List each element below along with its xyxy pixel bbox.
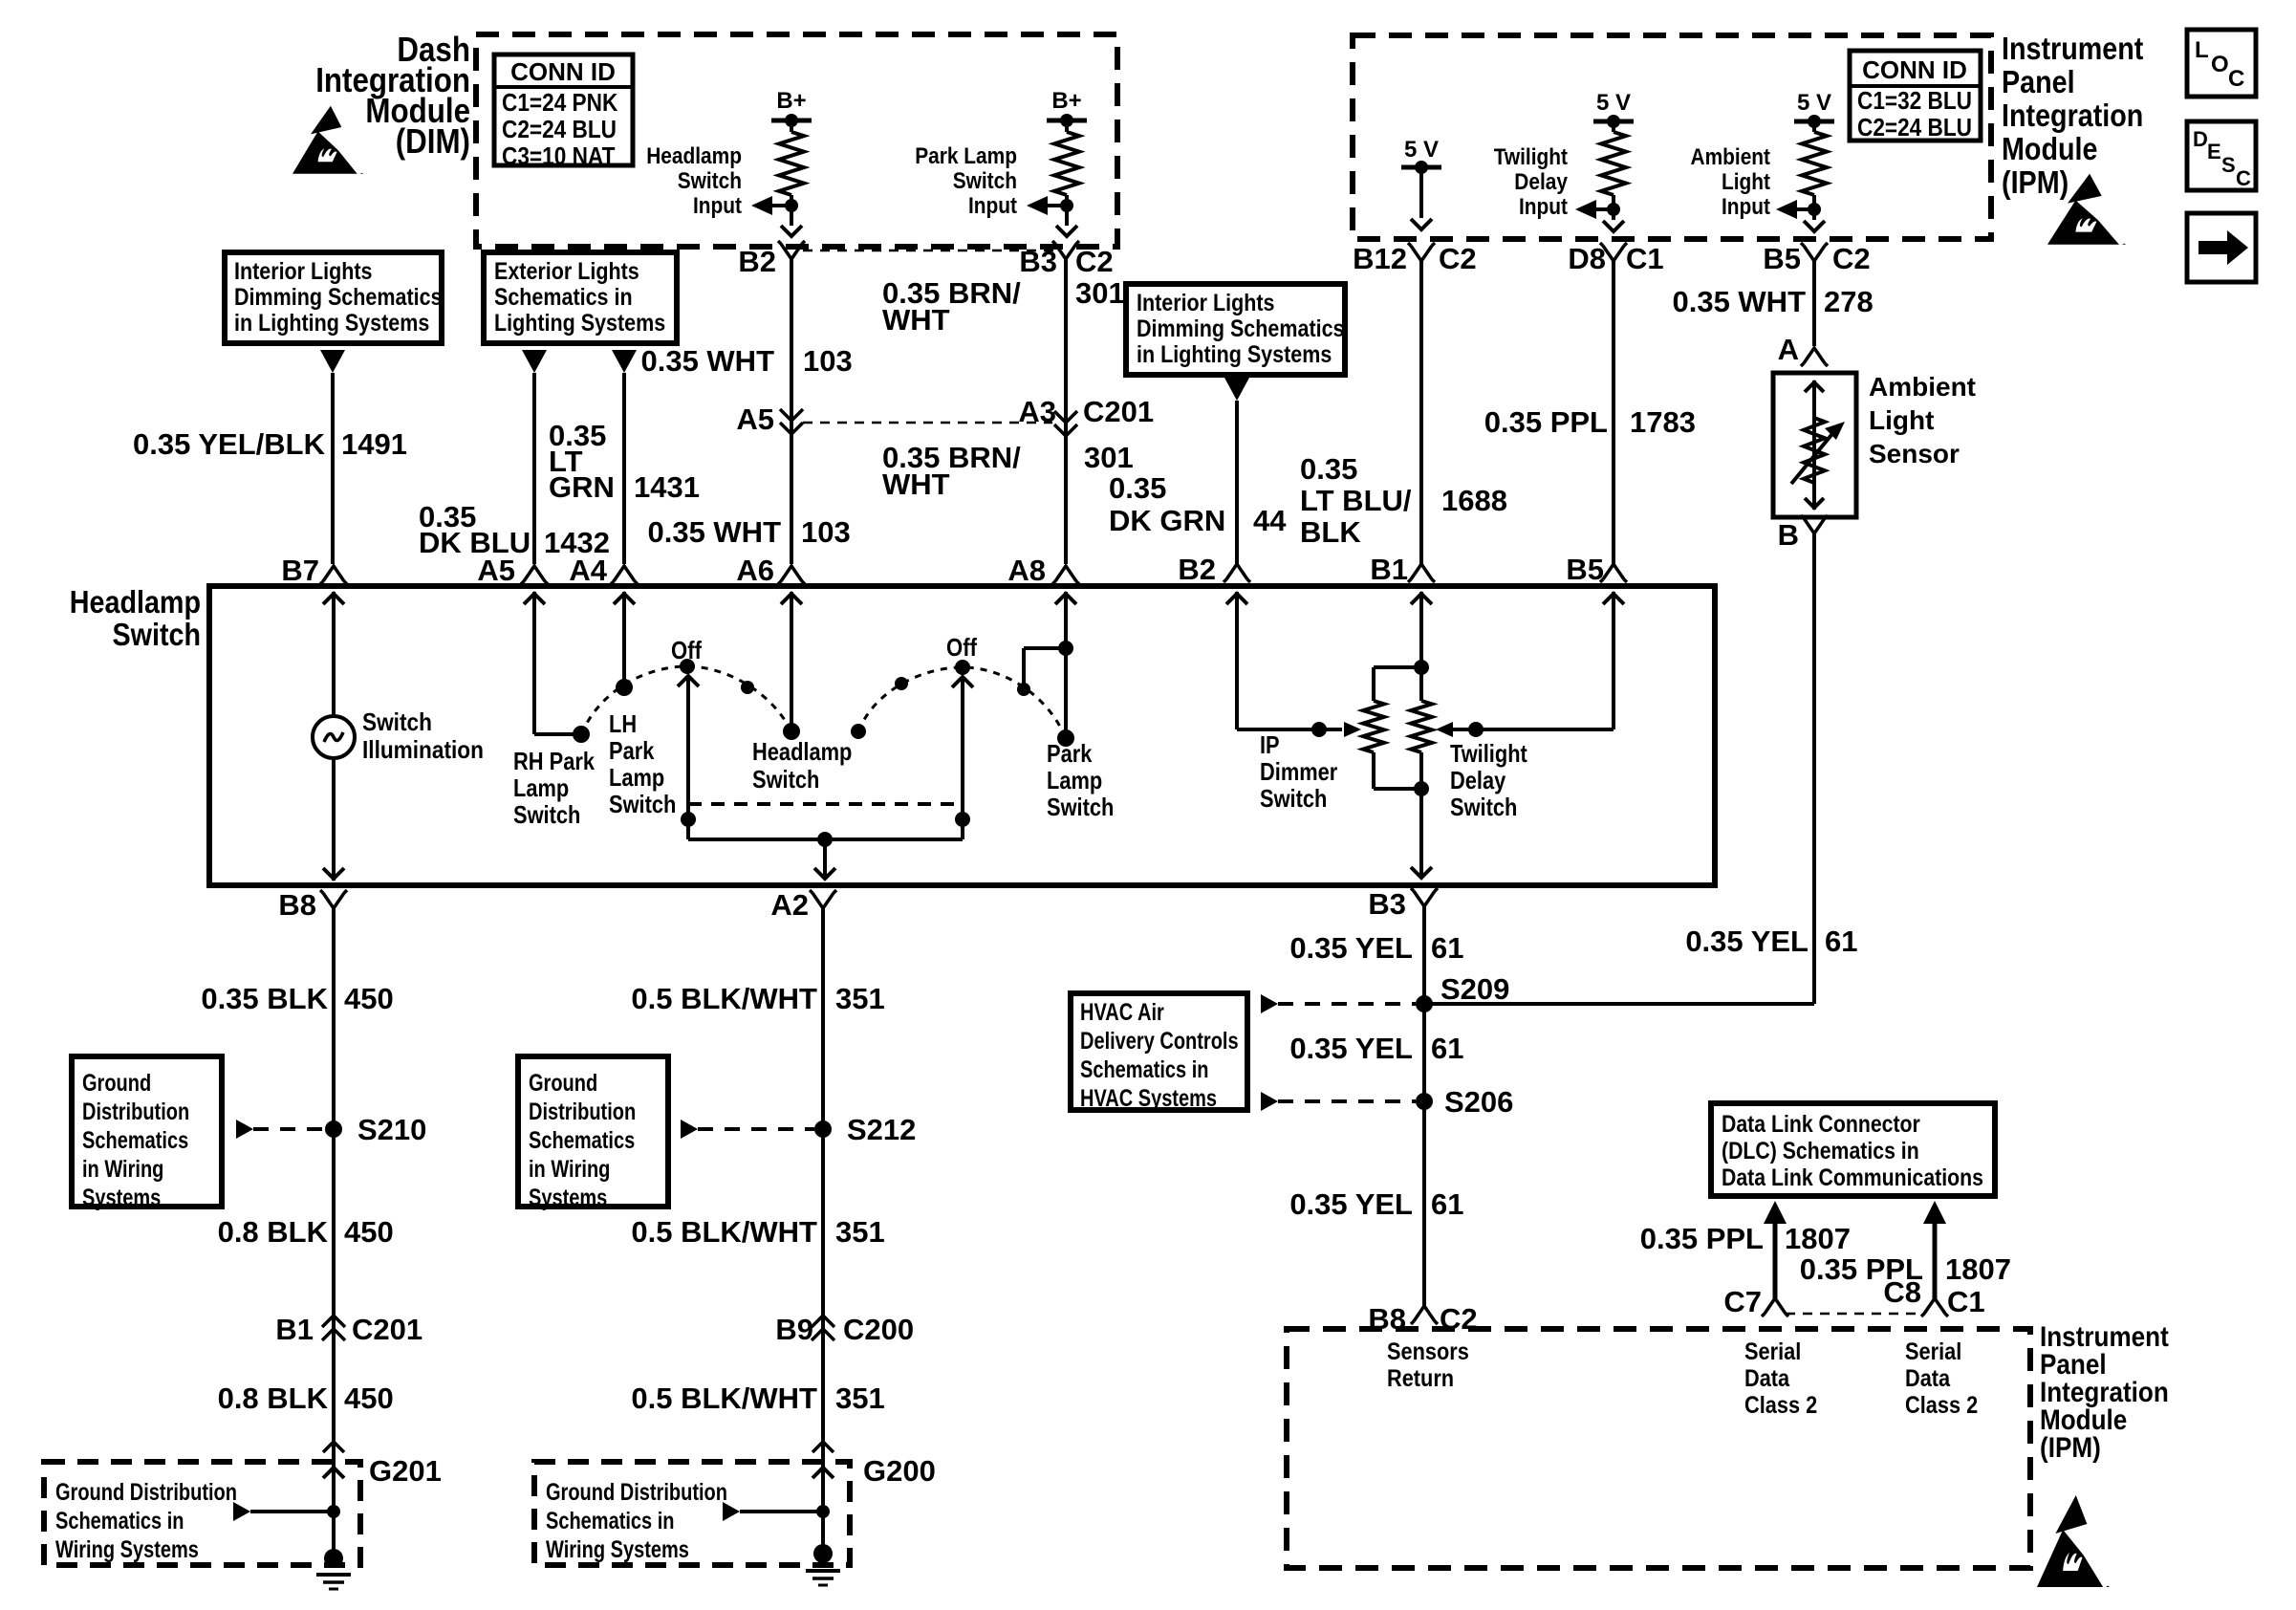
svg-text:C: C <box>2236 166 2251 190</box>
svg-text:C1=32 BLU: C1=32 BLU <box>1857 86 1972 115</box>
svg-text:Switch: Switch <box>1450 793 1517 821</box>
splice S210 with dashed reference arrow <box>236 1120 253 1139</box>
pin D8 / C1 of IPM (connector fork) <box>1600 243 1627 261</box>
ground symbol G201 <box>324 1549 343 1568</box>
svg-text:Interior Lights: Interior Lights <box>234 258 373 285</box>
svg-text:1807: 1807 <box>1785 1222 1851 1255</box>
svg-text:0.35 YEL: 0.35 YEL <box>1289 1032 1413 1065</box>
arrow wire from interior-lights callout to headlamp switch B2 <box>1224 378 1249 401</box>
svg-text:Light: Light <box>1869 405 1934 435</box>
svg-text:Interior Lights: Interior Lights <box>1137 290 1275 316</box>
svg-text:0.35 YEL: 0.35 YEL <box>1685 925 1809 958</box>
connector into G201 (half fork) <box>323 1442 344 1452</box>
svg-text:Integration: Integration <box>2002 98 2143 133</box>
ground lead G201 <box>323 1468 344 1478</box>
wire: B12 to B1 (0.35 LT BLU/BLK 1688) <box>1419 261 1423 564</box>
arrow wire from exterior-lights callout to A4 <box>612 350 637 373</box>
ground lead G200 <box>812 1468 834 1478</box>
ground symbol G200 <box>813 1544 833 1563</box>
svg-text:Switch: Switch <box>953 168 1017 194</box>
connector dashed tie line (C7-C1) <box>1786 1313 1925 1316</box>
svg-text:Park: Park <box>1047 739 1093 768</box>
svg-text:C8: C8 <box>1883 1275 1921 1309</box>
power feed B+ (headlamp switch input) <box>771 119 812 123</box>
svg-text:B2: B2 <box>1178 553 1216 586</box>
svg-text:Schematics in: Schematics in <box>494 284 633 311</box>
svg-text:0.35 WHT: 0.35 WHT <box>647 515 781 549</box>
svg-text:103: 103 <box>803 344 853 378</box>
svg-text:C200: C200 <box>843 1313 914 1346</box>
svg-text:Delay: Delay <box>1450 766 1506 794</box>
resistor: headlamp switch input pull-up <box>790 120 793 132</box>
svg-text:Lamp: Lamp <box>609 763 664 792</box>
svg-text:C3=10 NAT: C3=10 NAT <box>502 141 615 170</box>
callout box: Ground Distribution Schematics in Wiring Systems (mid) <box>518 1056 668 1207</box>
svg-text:Switch: Switch <box>678 168 742 194</box>
svg-text:5 V: 5 V <box>1797 90 1831 116</box>
svg-text:C2: C2 <box>1075 245 1114 278</box>
svg-text:Lighting Systems: Lighting Systems <box>494 310 665 337</box>
svg-text:Headlamp: Headlamp <box>646 143 742 169</box>
ground box: G201 dashed outline <box>44 1462 360 1565</box>
svg-text:0.35 YEL: 0.35 YEL <box>1289 1187 1413 1221</box>
wire: B2 to A6 (0.35 WHT 103) <box>790 259 793 564</box>
pin B12 / C2 of IPM (connector fork) <box>1408 243 1435 261</box>
svg-text:1783: 1783 <box>1630 405 1696 439</box>
svg-text:C1: C1 <box>1626 242 1664 275</box>
svg-text:HVAC Systems: HVAC Systems <box>1080 1085 1217 1112</box>
svg-text:CONN ID: CONN ID <box>510 57 616 86</box>
rotary contact arc (headlamp side) <box>858 667 1066 738</box>
ground box: G200 dashed outline <box>534 1462 850 1565</box>
wire: D8 to B5 (0.35 PPL 1783) <box>1612 261 1615 564</box>
wire: potentiometer to B3 pin <box>1419 789 1423 876</box>
contact: RH park lamp switch (A5) <box>532 592 536 734</box>
contact: LH park lamp switch (A4) <box>622 592 626 687</box>
svg-text:Class 2: Class 2 <box>1744 1392 1817 1419</box>
svg-text:Return: Return <box>1387 1365 1454 1392</box>
wire: B5 to ambient light sensor A (0.35 WHT 278) <box>1812 261 1816 346</box>
svg-text:Data: Data <box>1905 1365 1951 1392</box>
svg-text:B+: B+ <box>1051 88 1081 114</box>
svg-text:RH Park: RH Park <box>513 747 595 775</box>
svg-text:Dimmer: Dimmer <box>1260 757 1337 786</box>
wire: B3 to A8 (0.35 BRN/WHT 301) <box>1064 259 1068 564</box>
svg-text:450: 450 <box>344 982 394 1015</box>
svg-text:Input: Input <box>693 193 742 219</box>
svg-text:S: S <box>2221 153 2236 177</box>
svg-text:C1: C1 <box>1947 1285 1985 1318</box>
callout box: Ground Distribution Schematics in Wiring Systems (left) <box>72 1056 222 1207</box>
component box: ambient light sensor <box>1773 373 1856 517</box>
svg-text:351: 351 <box>835 1215 885 1249</box>
wire: serial data class 2 (C7) with arrow to DLC <box>1764 1201 1787 1224</box>
svg-text:Schematics in: Schematics in <box>1080 1056 1209 1083</box>
module box: Instrument Panel Integration Module (IPM), dashed outline <box>1353 35 1991 239</box>
svg-text:A5: A5 <box>736 402 774 436</box>
svg-text:Exterior Lights: Exterior Lights <box>494 258 639 285</box>
svg-text:Serial: Serial <box>1744 1338 1801 1365</box>
selector arm: headlamp switch (left) <box>678 676 699 686</box>
mechanical linkage dashed line between selector arms <box>688 802 961 806</box>
svg-text:C2: C2 <box>1832 242 1871 275</box>
svg-text:1491: 1491 <box>341 427 407 461</box>
svg-text:Data Link Connector: Data Link Connector <box>1722 1111 1920 1138</box>
svg-text:0.35 YEL: 0.35 YEL <box>1289 931 1413 965</box>
svg-text:351: 351 <box>835 982 885 1015</box>
svg-text:61: 61 <box>1431 1187 1463 1221</box>
svg-text:in Lighting Systems: in Lighting Systems <box>234 310 429 337</box>
svg-text:Class 2: Class 2 <box>1905 1392 1978 1419</box>
svg-text:Ambient: Ambient <box>1691 144 1771 170</box>
wire: B1 into dual potentiometer <box>1419 592 1423 667</box>
svg-text:S210: S210 <box>357 1113 426 1146</box>
svg-text:Schematics in: Schematics in <box>55 1508 184 1534</box>
connector ID table (IPM): C1=32 BLU, C2=24 BLU <box>1850 51 1981 141</box>
callout box: Data Link Connector (DLC) Schematics in Data Link Communications <box>1711 1103 1995 1196</box>
svg-text:C2=24 BLU: C2=24 BLU <box>502 115 617 143</box>
svg-text:S209: S209 <box>1440 972 1509 1006</box>
power feed 5V (twilight delay input) <box>1593 120 1634 124</box>
icon box: DESC <box>2187 121 2256 190</box>
callout box: HVAC Air Delivery Controls Schematics in HVAC Systems <box>1071 993 1247 1110</box>
svg-text:LT BLU/: LT BLU/ <box>1300 484 1412 517</box>
power feed B+ (park lamp switch input) <box>1047 119 1087 123</box>
svg-text:Ground: Ground <box>529 1070 597 1097</box>
svg-text:Switch: Switch <box>609 790 676 818</box>
svg-text:WHT: WHT <box>882 468 950 501</box>
svg-text:B1: B1 <box>275 1313 314 1346</box>
wire: sensor B down to S209 (0.35 YEL 61) <box>1812 533 1816 1004</box>
svg-text:A6: A6 <box>736 554 774 587</box>
svg-text:0.8 BLK: 0.8 BLK <box>218 1215 329 1249</box>
svg-text:Serial: Serial <box>1905 1338 1961 1365</box>
ESD susceptibility symbol (IPM bottom) <box>2037 1495 2110 1587</box>
svg-text:Ground Distribution: Ground Distribution <box>546 1479 727 1506</box>
svg-text:Ground Distribution: Ground Distribution <box>55 1479 237 1506</box>
wiper: twilight delay switch (from B5) <box>1612 592 1615 729</box>
svg-text:Twilight: Twilight <box>1494 144 1568 170</box>
svg-text:A3: A3 <box>1018 395 1056 428</box>
svg-text:Switch: Switch <box>513 800 580 829</box>
svg-text:B7: B7 <box>281 554 319 587</box>
svg-text:C2: C2 <box>1439 242 1477 275</box>
svg-text:Headlamp: Headlamp <box>70 584 201 620</box>
svg-text:Headlamp: Headlamp <box>752 737 852 766</box>
svg-text:Delivery Controls: Delivery Controls <box>1080 1028 1239 1055</box>
svg-text:0.8 BLK: 0.8 BLK <box>218 1382 329 1415</box>
svg-text:A5: A5 <box>477 554 515 587</box>
potentiometer: IP dimmer / twilight delay dual resistor <box>1414 660 1429 675</box>
svg-text:E: E <box>2207 140 2221 163</box>
connector dashed tie line C2 (DIM) <box>803 250 1054 252</box>
svg-text:5 V: 5 V <box>1404 137 1439 163</box>
svg-text:CONN ID: CONN ID <box>1862 55 1967 84</box>
module box: Dash Integration Module (DIM), dashed outline <box>476 34 1117 247</box>
pin B3 / C2 of DIM (connector fork) <box>1052 241 1079 259</box>
svg-text:B5: B5 <box>1566 553 1604 586</box>
svg-text:Sensor: Sensor <box>1869 439 1960 468</box>
svg-text:Park Lamp: Park Lamp <box>915 143 1017 169</box>
svg-text:A2: A2 <box>770 888 809 922</box>
arrow from interior-lights callout <box>320 350 345 373</box>
svg-text:WHT: WHT <box>882 303 950 337</box>
svg-text:61: 61 <box>1825 925 1857 958</box>
dashed reference arrow to S209 <box>1261 994 1278 1013</box>
svg-text:C201: C201 <box>352 1313 422 1346</box>
svg-text:C201: C201 <box>1083 395 1154 428</box>
node: twilight delay input junction <box>1607 203 1620 216</box>
svg-text:278: 278 <box>1824 285 1874 318</box>
component box: Headlamp Switch <box>209 586 1715 885</box>
svg-text:S212: S212 <box>847 1113 916 1146</box>
wire: switch illumination (B7-B8 through lamp) <box>332 592 336 716</box>
node: headlamp switch input junction <box>785 199 798 212</box>
svg-text:in Wiring: in Wiring <box>529 1156 610 1183</box>
wire: B8 to G201 ground <box>332 906 336 1558</box>
module box: Instrument Panel Integration Module (IPM) bottom, dashed outline <box>1287 1329 2030 1568</box>
svg-text:103: 103 <box>801 515 851 549</box>
svg-text:A8: A8 <box>1007 554 1046 587</box>
svg-text:5 V: 5 V <box>1596 90 1631 116</box>
pin B2 of DIM (connector fork) <box>778 241 805 259</box>
svg-text:450: 450 <box>344 1382 394 1415</box>
svg-text:Switch: Switch <box>362 707 432 736</box>
svg-text:0.5 BLK/WHT: 0.5 BLK/WHT <box>631 1382 817 1415</box>
svg-text:Systems: Systems <box>529 1185 607 1211</box>
svg-text:O: O <box>2211 52 2229 77</box>
pin B5 / C2 of IPM (connector fork) <box>1801 243 1828 261</box>
svg-text:(DLC) Schematics in: (DLC) Schematics in <box>1722 1138 1919 1164</box>
svg-text:Distribution: Distribution <box>82 1099 189 1125</box>
svg-text:B1: B1 <box>1370 553 1408 586</box>
svg-text:Sensors: Sensors <box>1387 1338 1469 1365</box>
callout box: Exterior Lights Schematics in Lighting Systems <box>484 252 677 343</box>
wire: B3 to IPM B8 (0.35 YEL 61) <box>1422 906 1426 1306</box>
rotary contact arc (park lamp side) <box>581 666 791 734</box>
svg-text:Wiring Systems: Wiring Systems <box>55 1536 199 1563</box>
svg-text:Schematics: Schematics <box>529 1127 635 1154</box>
svg-text:Delay: Delay <box>1514 169 1568 195</box>
selector arm: park lamp switch (right) <box>952 677 973 687</box>
svg-text:B2: B2 <box>738 245 776 278</box>
icon box: LOC <box>2187 30 2256 97</box>
photoresistor symbol inside sensor <box>1812 381 1816 510</box>
svg-text:0.5 BLK/WHT: 0.5 BLK/WHT <box>631 1215 817 1249</box>
node: park lamp switch input junction <box>1060 199 1073 212</box>
svg-text:in Lighting Systems: in Lighting Systems <box>1137 341 1332 368</box>
svg-text:Input: Input <box>1519 194 1568 220</box>
svg-text:HVAC Air: HVAC Air <box>1080 999 1164 1026</box>
svg-text:A4: A4 <box>569 554 607 587</box>
ESD susceptibility symbol (IPM top) <box>2047 174 2126 245</box>
power feed 5V (ambient light input) <box>1794 120 1834 124</box>
svg-text:GRN: GRN <box>549 470 615 504</box>
svg-text:G201: G201 <box>369 1454 442 1488</box>
svg-text:C2=24 BLU: C2=24 BLU <box>1857 113 1972 141</box>
svg-text:1807: 1807 <box>1945 1252 2011 1286</box>
wire: serial data class 2 (C8/C1) with arrow to DLC <box>1923 1201 1946 1224</box>
resistor: park lamp switch input pull-up <box>1065 120 1069 132</box>
svg-text:301: 301 <box>1084 441 1134 474</box>
connector B9 / C200 inline <box>812 1316 834 1340</box>
svg-text:S206: S206 <box>1444 1085 1513 1119</box>
pin B8 / C2 of IPM (bottom) <box>1411 1306 1438 1324</box>
svg-text:Instrument: Instrument <box>2002 31 2143 66</box>
resistor: twilight delay input pull-up <box>1612 121 1615 132</box>
svg-text:Distribution: Distribution <box>529 1099 636 1125</box>
svg-text:44: 44 <box>1253 504 1287 537</box>
svg-text:B8: B8 <box>278 888 316 922</box>
lamp: switch illumination <box>313 716 355 758</box>
svg-text:C: C <box>2228 66 2244 92</box>
svg-text:Lamp: Lamp <box>1047 766 1102 794</box>
svg-text:Switch: Switch <box>1260 784 1327 813</box>
svg-text:G200: G200 <box>863 1454 936 1488</box>
svg-text:Twilight: Twilight <box>1450 739 1527 768</box>
svg-text:L: L <box>2195 37 2209 63</box>
svg-text:(IPM): (IPM) <box>2002 164 2069 200</box>
svg-text:351: 351 <box>835 1382 885 1415</box>
connector B1 / C201 inline <box>322 1316 345 1340</box>
svg-text:Park: Park <box>609 736 655 765</box>
connector into G200 (half fork) <box>812 1442 834 1452</box>
svg-text:Systems: Systems <box>82 1185 161 1211</box>
svg-text:1431: 1431 <box>634 470 700 504</box>
svg-text:Data: Data <box>1744 1365 1790 1392</box>
svg-text:D8: D8 <box>1568 242 1606 275</box>
svg-text:0.35 WHT: 0.35 WHT <box>1672 285 1806 318</box>
svg-text:Switch: Switch <box>752 765 819 794</box>
arrow wire from exterior-lights callout to A5 <box>522 350 547 373</box>
svg-text:(IPM): (IPM) <box>2040 1432 2101 1464</box>
svg-text:B9: B9 <box>775 1313 813 1346</box>
connector dashed tie line (A5-A3) <box>803 422 1052 424</box>
svg-text:D: D <box>2193 127 2208 151</box>
svg-text:B: B <box>1778 518 1799 552</box>
svg-text:0.35: 0.35 <box>1109 471 1166 505</box>
node: ambient light input junction <box>1808 203 1821 216</box>
svg-text:0.35 WHT: 0.35 WHT <box>640 344 774 378</box>
svg-text:Panel: Panel <box>2002 64 2075 99</box>
wire: A6 terminal into switch <box>790 592 793 731</box>
svg-text:Dimming Schematics: Dimming Schematics <box>1137 315 1345 342</box>
svg-text:Lamp: Lamp <box>513 773 569 802</box>
wire: A8 terminal into switch <box>1064 592 1068 738</box>
splice S206 with dashed reference arrow <box>1261 1092 1278 1111</box>
svg-text:Switch: Switch <box>1047 793 1114 821</box>
svg-text:Switch: Switch <box>113 617 202 652</box>
svg-text:0.35: 0.35 <box>1300 452 1357 486</box>
splice S212 with dashed reference arrow <box>681 1120 698 1139</box>
svg-text:Data Link Communications: Data Link Communications <box>1722 1164 1983 1191</box>
svg-text:A: A <box>1778 333 1799 366</box>
svg-text:Ambient: Ambient <box>1869 372 1976 402</box>
svg-text:Off: Off <box>946 633 977 662</box>
svg-text:B5: B5 <box>1763 242 1801 275</box>
svg-text:Schematics in: Schematics in <box>546 1508 675 1534</box>
callout box: Interior Lights Dimming Schematics (right) <box>1126 284 1345 375</box>
connector ID table (DIM): C1=24 PNK, C2=24 BLU, C3=10 NAT <box>494 54 633 165</box>
svg-text:Ground: Ground <box>82 1070 151 1097</box>
svg-text:(DIM): (DIM) <box>396 121 470 161</box>
svg-text:B3: B3 <box>1368 887 1406 921</box>
svg-text:DK GRN: DK GRN <box>1109 504 1225 537</box>
svg-text:301: 301 <box>1075 276 1125 310</box>
svg-text:Illumination: Illumination <box>362 735 484 764</box>
svg-text:61: 61 <box>1431 1032 1463 1065</box>
svg-text:Input: Input <box>968 193 1017 219</box>
resistor: ambient light input pull-up <box>1812 121 1816 132</box>
callout box: Interior Lights Dimming Schematics in Lighting Systems (left) <box>225 252 442 343</box>
svg-text:0.5 BLK/WHT: 0.5 BLK/WHT <box>631 982 817 1015</box>
connector A3 / C201 inline on BRN/WHT wire <box>1054 411 1077 436</box>
selector common bus to A2 <box>688 838 963 841</box>
svg-text:Schematics: Schematics <box>82 1127 188 1154</box>
wiper: IP dimmer switch (from B2) <box>1235 592 1239 729</box>
svg-text:Input: Input <box>1722 194 1770 220</box>
svg-text:BLK: BLK <box>1300 515 1361 549</box>
splice S209 <box>1416 995 1433 1012</box>
svg-text:450: 450 <box>344 1215 394 1249</box>
svg-text:Module: Module <box>2002 131 2098 166</box>
svg-text:Dimming Schematics: Dimming Schematics <box>234 284 443 311</box>
connector A5 inline on WHT wire <box>780 409 803 434</box>
svg-text:B+: B+ <box>776 88 806 114</box>
ESD susceptibility symbol (DIM) <box>292 106 363 174</box>
svg-text:in Wiring: in Wiring <box>82 1156 163 1183</box>
svg-text:C7: C7 <box>1723 1285 1762 1318</box>
svg-text:61: 61 <box>1431 931 1463 965</box>
power feed 5V (B12 sensor return ref) <box>1401 165 1441 170</box>
svg-text:IP: IP <box>1260 730 1280 759</box>
svg-text:Wiring Systems: Wiring Systems <box>546 1536 689 1563</box>
svg-text:0.35 PPL: 0.35 PPL <box>1484 405 1608 439</box>
svg-text:B12: B12 <box>1353 242 1407 275</box>
svg-text:C1=24 PNK: C1=24 PNK <box>502 88 617 117</box>
svg-text:1688: 1688 <box>1441 484 1507 517</box>
icon box: forward arrow <box>2187 213 2256 282</box>
svg-text:0.35 PPL: 0.35 PPL <box>1640 1222 1764 1255</box>
svg-text:Light: Light <box>1722 169 1770 195</box>
svg-text:0.35 YEL/BLK: 0.35 YEL/BLK <box>133 427 326 461</box>
svg-text:LH: LH <box>609 709 637 738</box>
svg-text:0.35 BLK: 0.35 BLK <box>201 982 328 1015</box>
wire: A2 to G200 ground <box>821 906 825 1554</box>
